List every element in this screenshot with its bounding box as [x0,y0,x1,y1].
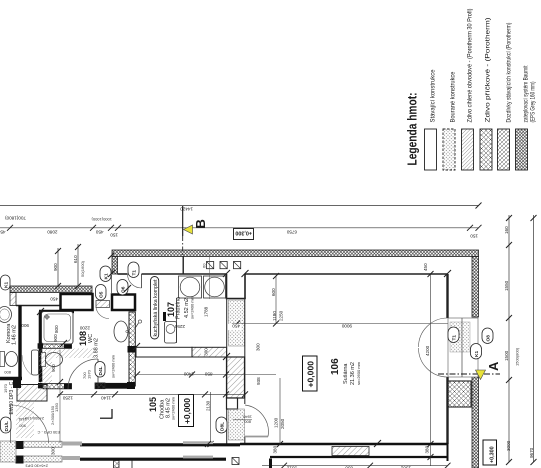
niche in wall of room 106 [226,274,246,299]
svg-text:150: 150 [470,234,478,239]
section marker A [438,361,501,380]
kitchen sink left [165,322,177,344]
washer unit 2 [204,276,226,298]
svg-text:105: 105 [148,397,158,412]
wire dim 380 bottom right [262,444,451,468]
hatched column bottom-left [13,378,47,401]
wire dim chain top [0,216,482,239]
svg-text:50(1600): 50(1600) [80,260,85,277]
svg-text:K1: K1 [474,351,480,357]
svg-text:zateplovací systém Baumit: zateplovací systém Baumit [524,65,530,122]
svg-text:4200: 4200 [425,345,430,356]
svg-text:K1: K1 [4,282,10,288]
svg-text:3000: 3000 [506,440,511,451]
node vertical dim 610 [73,244,85,289]
svg-text:107: 107 [166,302,176,317]
wall stairs top [16,441,241,464]
svg-text:+0,300: +0,300 [235,230,252,236]
wire link top wall [111,275,113,293]
wall 107 left stub [163,312,166,321]
room 105 label [148,396,176,420]
oval K1 left edge [1,275,11,290]
wall WC left [39,312,43,383]
svg-text:9670: 9670 [529,447,534,458]
svg-text:900: 900 [53,334,58,342]
svg-text:60: 60 [202,263,207,268]
svg-text:D1/L: D1/L [4,421,10,431]
svg-text:1550: 1550 [504,280,509,291]
svg-text:9000: 9000 [341,324,352,329]
wire right overall dim 9670 [529,215,537,465]
komora basin inner rim [0,309,9,320]
svg-text:1250: 1250 [62,396,73,401]
svg-text:450: 450 [0,230,6,235]
svg-text:1000(1000): 1000(1000) [91,217,112,222]
svg-text:3.88 m2: 3.88 m2 [94,338,100,358]
svg-text:O8: O8 [486,335,492,342]
svg-text:sv=2400 mm: sv=2400 mm [111,354,116,378]
elevation box +0,300 top [234,229,254,240]
elevation box +0,000 corridor [179,395,194,427]
wire horiz dim in 106 [228,273,472,330]
komora label [4,323,18,375]
komora toilet [0,352,18,367]
wire dim 4200 [423,263,434,447]
wall shaft box 1 [61,294,93,310]
legend swatch 3 [462,129,474,170]
svg-text:300: 300 [204,348,209,356]
elevation box +0,000 room 106 [303,356,318,391]
door D4L leaf + arc [68,359,98,389]
legend swatch 6 [516,129,528,170]
wall WC top [39,310,74,313]
wall right insulation band [448,257,479,468]
svg-text:900: 900 [21,323,29,328]
wall under tub crosshatch [38,344,72,349]
wire corridor dim line [57,391,248,400]
wire stair dim vline [57,350,63,443]
door shaft leaf hatched + arc [96,301,110,319]
legend swatch 2 [443,129,455,170]
room 106 label [330,358,361,385]
vent squares [202,262,241,269]
svg-text:D8L: D8L [220,422,226,431]
svg-text:1970: 1970 [87,369,92,379]
room 108 label [78,331,116,378]
svg-text:300: 300 [256,343,261,351]
svg-text:Legenda hmot:: Legenda hmot: [405,93,420,166]
svg-text:938: 938 [256,377,261,385]
wall room 106 bottom [240,444,449,461]
svg-text:sv=2600 mm: sv=2600 mm [356,361,361,385]
node floor step mark [100,409,113,418]
legend swatch 5 [498,129,510,170]
svg-text:1788: 1788 [204,306,209,317]
svg-text:2080: 2080 [47,230,58,235]
svg-text:E30 DP3 - C: E30 DP3 - C [37,430,60,435]
svg-text:850: 850 [204,371,212,376]
svg-text:T1: T1 [452,335,458,341]
svg-text:160: 160 [504,226,509,234]
oval D4L [82,362,105,380]
svg-text:D4L: D4L [98,366,104,375]
svg-text:450: 450 [50,297,58,302]
bathtub [42,312,74,345]
floor sparse hatch [39,349,94,384]
svg-text:1400: 1400 [183,371,194,376]
section marker B [183,206,208,274]
svg-text:800: 800 [4,370,11,375]
komora basin [0,307,12,323]
svg-text:800: 800 [54,325,59,333]
svg-text:610: 610 [73,255,78,263]
svg-text:1500(800): 1500(800) [515,347,520,366]
oval labels right door [448,327,493,359]
wall top-left lower band [10,286,92,306]
svg-text:Stávající konstrukce: Stávající konstrukce [431,69,437,123]
stair bottom bits [114,458,271,468]
svg-text:900: 900 [53,263,58,271]
corner tick marks [37,253,451,447]
svg-text:450: 450 [232,324,240,329]
oval D8L [216,417,227,433]
svg-text:2250: 2250 [174,324,185,329]
svg-text:+0,000: +0,000 [182,398,192,424]
svg-text:108: 108 [78,331,88,346]
svg-text:A: A [486,361,501,371]
wall shaft box 2 [112,295,135,311]
wall dozdivka block right [448,381,472,407]
wire right dim chain [504,215,520,465]
svg-text:300: 300 [51,447,56,455]
svg-text:450: 450 [95,230,103,235]
wall komora right [18,306,21,379]
node tap symbol [136,320,142,328]
svg-text:1200: 1200 [274,417,279,428]
svg-text:kuchyňská linka komplet: kuchyňská linka komplet [153,279,159,337]
wall 107/105 white band [136,347,227,357]
svg-text:2050: 2050 [280,418,285,429]
wall demolished stipple band 105/106 [227,299,245,445]
svg-text:Dozdívky stávajících konstrukc: Dozdívky stávajících konstrukcí (Porothe… [506,23,513,123]
svg-text:Prádelna: Prádelna [176,296,182,319]
legend swatch 1 [425,129,437,170]
left edge texts [1,381,61,468]
room 107 label [166,295,195,319]
svg-text:1.46 m2: 1.46 m2 [12,325,18,345]
bottom-left edge stipple [0,441,16,462]
svg-text:106: 106 [330,358,341,375]
svg-text:T1: T1 [132,270,138,276]
svg-text:150: 150 [110,233,118,238]
svg-text:1350: 1350 [54,402,59,412]
svg-text:14420: 14420 [180,206,193,211]
svg-text:Zdivo cihlené obvodové - (Poro: Zdivo cihlené obvodové - (Porotherm 30 P… [467,9,474,123]
svg-text:B: B [193,219,208,228]
kuchynska linka oval [151,277,160,340]
door D1L leaf + arc [11,405,49,443]
svg-text:700(1800): 700(1800) [5,216,26,221]
svg-text:Bourané konstrukce: Bourané konstrukce [451,71,457,123]
wall WC bottom black seg right [95,383,128,389]
svg-text:+0,000: +0,000 [306,361,316,388]
svg-text:sv=2400 mm: sv=2400 mm [171,396,176,420]
wall top insulation band [112,250,479,274]
svg-text:6750: 6750 [286,230,297,235]
svg-text:450: 450 [423,263,428,271]
wire dim 2130 [206,392,214,447]
wall WC bottom crosshatch [38,383,72,389]
svg-text:600: 600 [271,288,276,296]
legend swatch 4 [480,129,492,170]
svg-text:2130: 2130 [206,400,211,411]
svg-text:1140: 1140 [101,396,111,401]
svg-text:+0,300: +0,300 [490,446,496,463]
kitchen counter edge [176,298,178,343]
wall WC/107 hatched vertical [127,312,137,389]
svg-text:Zdivo příčkové - (Porotherm): Zdivo příčkové - (Porotherm) [485,18,492,123]
svg-text:2200: 2200 [79,326,90,331]
svg-text:1970: 1970 [3,383,8,393]
svg-text:2250: 2250 [279,310,284,321]
elevation box +0,300 bottom right [483,440,497,465]
wire section B continuation [209,257,211,299]
floor hatch left strip [16,402,34,438]
door in top wall [128,274,142,288]
wire overall dim 14420 [0,203,482,212]
washer unit 1 [179,276,202,298]
svg-text:sv=2400 mm: sv=2400 mm [190,295,195,319]
door D8L leaf + arc [233,405,268,437]
wire corridor dim line upper [134,371,276,377]
wall komora bottom [0,377,22,380]
washbasin 108 [114,321,128,342]
svg-text:380: 380 [425,445,430,453]
dims right of corridor [256,343,286,454]
komora door leaf + arc [22,350,39,375]
svg-text:380: 380 [273,445,278,453]
svg-text:2×6×30 DP3: 2×6×30 DP3 [25,464,48,468]
svg-text:1840: 1840 [242,415,252,420]
toilet 108 [41,353,63,367]
node vertical dim 900 [53,248,61,289]
svg-text:Sušárna: Sušárna [343,363,349,384]
svg-text:800: 800 [244,420,251,425]
svg-text:O5: O5 [99,291,105,298]
svg-text:(EPS Grey 160 mm): (EPS Grey 160 mm) [531,82,537,123]
svg-text:1500: 1500 [504,350,509,361]
